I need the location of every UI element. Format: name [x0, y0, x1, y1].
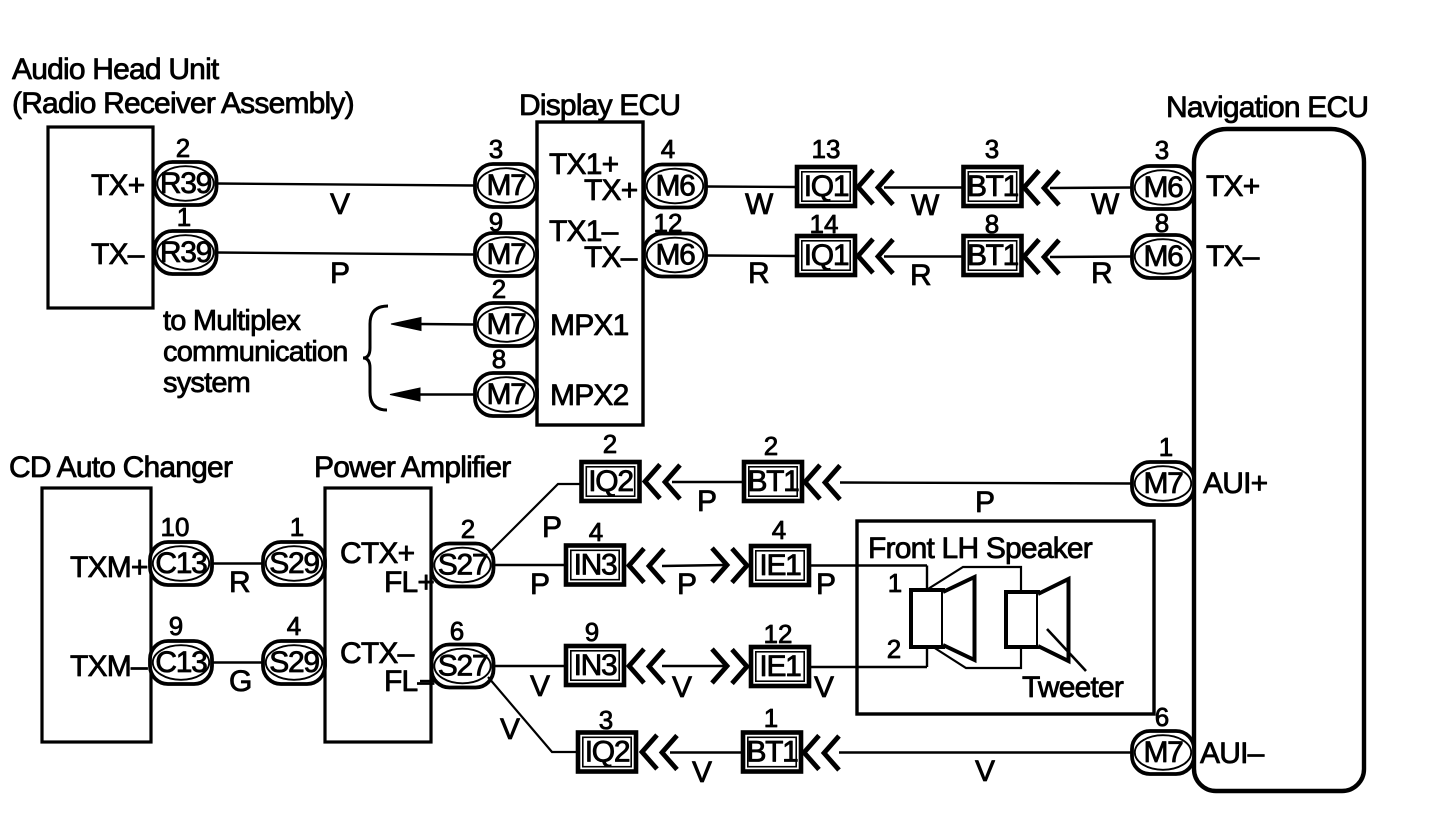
svg-text:BT1: BT1	[746, 736, 798, 769]
svg-text:system: system	[163, 367, 250, 399]
wire P ie1 to speaker	[809, 564, 927, 566]
woofer symbol	[911, 577, 975, 660]
svg-text:Tweeter: Tweeter	[1022, 671, 1124, 704]
connector M7 pin2 MPX1	[475, 303, 537, 346]
svg-text:M7: M7	[486, 378, 526, 411]
Audio Head Unit box	[48, 127, 153, 308]
wire G c13 to s29	[212, 661, 264, 663]
chevrons after BT1 row1	[1024, 171, 1059, 206]
svg-text:1: 1	[177, 202, 191, 232]
wire R c13 to s29	[212, 562, 264, 564]
chevrons after IQ2 bottom	[642, 735, 677, 770]
wire speaker wire2 v	[926, 646, 928, 667]
connector R39 pin1	[155, 231, 217, 274]
junction connector IN3 pin4	[566, 546, 624, 585]
svg-text:IN3: IN3	[574, 649, 617, 682]
wire P bt1 to m7nav	[840, 483, 1132, 484]
wire branch S27 up to IQ2	[489, 484, 582, 553]
svg-text:BT1: BT1	[747, 465, 799, 498]
svg-text:M6: M6	[655, 170, 695, 203]
svg-text:IN3: IN3	[574, 549, 617, 582]
wire V s27 to in3	[494, 665, 567, 667]
wire R iq1 to bt1	[884, 255, 964, 257]
svg-text:M7: M7	[486, 308, 526, 341]
wire P s27 to in3	[494, 564, 567, 566]
CD Auto Changer box	[42, 488, 151, 742]
wire W m6 to iq1	[706, 185, 797, 188]
connector S29 pin1	[263, 542, 325, 585]
svg-text:R: R	[1091, 257, 1112, 290]
junction connector IQ1 pin14	[797, 236, 855, 275]
svg-text:TX+: TX+	[1206, 170, 1260, 203]
svg-text:(Radio Receiver Assembly): (Radio Receiver Assembly)	[12, 87, 354, 120]
svg-text:1: 1	[1159, 432, 1173, 462]
svg-text:IQ2: IQ2	[585, 736, 630, 769]
svg-text:P: P	[697, 485, 716, 518]
brace to multiplex	[363, 306, 388, 410]
svg-text:MPX2: MPX2	[550, 379, 629, 412]
svg-text:P: P	[542, 511, 561, 544]
svg-text:Audio Head Unit: Audio Head Unit	[12, 53, 220, 86]
wire speaker wire2 h	[857, 666, 927, 668]
Power Amplifier box	[325, 488, 431, 742]
svg-text:communication: communication	[163, 336, 348, 368]
svg-text:2: 2	[603, 429, 617, 459]
svg-text:G: G	[229, 665, 252, 698]
svg-text:3: 3	[1155, 135, 1169, 165]
chevrons after BT1 row2	[1024, 240, 1059, 275]
wire speaker wire1 v	[926, 566, 928, 592]
svg-text:3: 3	[599, 705, 613, 735]
wire W iq1 to bt1	[884, 186, 964, 188]
junction connector IQ1 pin13	[797, 167, 855, 206]
svg-text:M7: M7	[1143, 736, 1183, 769]
svg-text:1: 1	[764, 703, 778, 733]
svg-text:14: 14	[810, 209, 839, 239]
svg-text:9: 9	[169, 611, 183, 641]
svg-text:12: 12	[764, 619, 793, 649]
wire W bt1 to m6nav	[1050, 186, 1132, 189]
junction connector BT1 pin3	[964, 167, 1022, 206]
svg-text:R: R	[229, 566, 250, 599]
svg-text:Front LH Speaker: Front LH Speaker	[868, 532, 1093, 565]
svg-text:M7: M7	[486, 238, 526, 271]
connector M7 pin3	[475, 164, 537, 207]
svg-text:IQ2: IQ2	[588, 465, 633, 498]
svg-text:P: P	[677, 568, 696, 601]
svg-text:IQ1: IQ1	[804, 239, 849, 272]
junction connector BT1 pin1	[743, 733, 801, 772]
wire V audio to display	[217, 184, 476, 186]
chevrons after IN3 top	[629, 549, 664, 584]
svg-text:M7: M7	[1143, 467, 1183, 500]
svg-text:TX–: TX–	[1206, 240, 1260, 273]
svg-text:TX+: TX+	[584, 174, 638, 207]
svg-text:V: V	[672, 671, 692, 704]
svg-text:M6: M6	[1143, 240, 1183, 273]
chevrons after IQ1 row2	[858, 239, 893, 274]
junction connector BT1 pin2	[744, 462, 802, 501]
connector S27 pin6	[432, 645, 494, 688]
svg-text:TX–: TX–	[584, 241, 638, 274]
connector S27 pin2	[432, 544, 494, 587]
svg-text:V: V	[814, 671, 834, 704]
arrow to multiplex 1	[391, 318, 475, 331]
svg-text:V: V	[330, 188, 350, 221]
svg-text:TXM–: TXM–	[70, 650, 148, 683]
svg-text:TX+: TX+	[91, 169, 145, 202]
svg-text:13: 13	[812, 134, 841, 164]
svg-text:4: 4	[772, 515, 786, 545]
svg-text:W: W	[911, 189, 940, 222]
wire branch S27 down to IQ2	[488, 677, 578, 752]
svg-text:3: 3	[985, 134, 999, 164]
svg-text:R39: R39	[160, 167, 212, 200]
connector M6 nav pin3	[1132, 166, 1194, 209]
svg-text:9: 9	[585, 617, 599, 647]
connector M7 pin9	[475, 233, 537, 276]
svg-text:IQ1: IQ1	[804, 170, 849, 203]
svg-text:W: W	[745, 188, 774, 221]
svg-text:4: 4	[287, 611, 301, 641]
tweeter symbol	[1006, 579, 1069, 661]
svg-text:S27: S27	[438, 549, 488, 582]
chevrons after IQ2 top	[645, 465, 680, 500]
svg-text:P: P	[975, 486, 994, 519]
svg-text:TX–: TX–	[91, 238, 145, 271]
svg-text:8: 8	[1155, 208, 1169, 238]
chevrons after BT1 aui+	[805, 465, 840, 500]
svg-text:FL+: FL+	[384, 566, 434, 599]
svg-text:1: 1	[290, 512, 304, 542]
wire V in3 to ie1	[662, 665, 724, 667]
svg-text:Power Amplifier: Power Amplifier	[314, 451, 511, 484]
svg-text:8: 8	[492, 344, 506, 374]
svg-text:6: 6	[1155, 702, 1169, 732]
junction connector IE1 pin4	[751, 546, 809, 585]
svg-text:IE1: IE1	[759, 650, 801, 683]
svg-text:TXM+: TXM+	[70, 551, 148, 584]
chevrons before IE1 top	[712, 548, 747, 583]
connector M7 nav pin1 AUI+	[1132, 462, 1194, 505]
wire P audio to display	[217, 253, 476, 255]
svg-text:W: W	[1091, 188, 1120, 221]
svg-text:MPX1: MPX1	[550, 309, 629, 342]
svg-text:V: V	[500, 713, 520, 746]
svg-text:3: 3	[489, 134, 503, 164]
Navigation ECU box	[1194, 129, 1364, 791]
wire P in3 to ie1	[662, 565, 724, 566]
svg-text:M6: M6	[1143, 171, 1183, 204]
chevrons after IQ1 row1	[858, 170, 893, 205]
svg-text:R: R	[748, 257, 769, 290]
tweeter pointer line	[1047, 629, 1086, 671]
svg-text:V: V	[530, 670, 550, 703]
svg-text:Navigation ECU: Navigation ECU	[1166, 91, 1368, 124]
svg-text:AUI–: AUI–	[1200, 737, 1265, 770]
junction connector IQ2 pin3	[578, 733, 636, 772]
junction connector BT1 pin8	[964, 236, 1022, 275]
svg-text:IE1: IE1	[759, 549, 801, 582]
svg-text:C13: C13	[155, 547, 207, 580]
FL- dash to S27	[420, 680, 436, 682]
svg-text:R: R	[910, 259, 931, 292]
wire V ie1 to speaker	[809, 666, 927, 668]
chevrons before IE1 bottom	[712, 649, 747, 684]
svg-text:12: 12	[654, 208, 683, 238]
chevrons after BT1 aui-	[804, 736, 839, 771]
svg-text:P: P	[530, 568, 549, 601]
wire R bt1 to m6nav	[1050, 255, 1132, 258]
svg-text:6: 6	[450, 616, 464, 646]
svg-text:AUI+: AUI+	[1203, 467, 1268, 500]
svg-text:1: 1	[888, 568, 902, 598]
svg-text:2: 2	[764, 431, 778, 461]
junction connector IQ2 pin2	[582, 462, 640, 501]
svg-text:to Multiplex: to Multiplex	[163, 305, 301, 337]
connector C13 pin9	[150, 641, 212, 684]
svg-text:2: 2	[176, 133, 190, 163]
connector R39 pin2	[155, 162, 217, 205]
wire V iq2 to bt1	[670, 751, 743, 753]
svg-text:2: 2	[461, 514, 475, 544]
svg-text:4: 4	[589, 517, 603, 547]
svg-text:10: 10	[161, 512, 190, 542]
connector M6 nav pin8	[1132, 235, 1194, 278]
svg-text:C13: C13	[155, 646, 207, 679]
svg-text:M7: M7	[486, 169, 526, 202]
svg-text:P: P	[816, 568, 835, 601]
svg-text:9: 9	[489, 207, 503, 237]
connector M7 pin8 MPX2	[475, 373, 537, 416]
svg-text:BT1: BT1	[967, 170, 1019, 203]
svg-text:4: 4	[661, 134, 675, 164]
Display ECU box	[537, 122, 643, 425]
svg-text:Display ECU: Display ECU	[519, 89, 680, 122]
svg-text:S29: S29	[269, 547, 319, 580]
svg-text:R39: R39	[160, 236, 212, 269]
svg-text:M6: M6	[655, 239, 695, 272]
svg-text:2: 2	[887, 634, 901, 664]
junction connector IN3 pin9	[566, 646, 624, 685]
wire P iq2 to bt1	[672, 481, 744, 483]
svg-text:BT1: BT1	[967, 239, 1019, 272]
connector M6 pin4	[644, 165, 706, 208]
svg-text:CD Auto Changer: CD Auto Changer	[9, 451, 233, 484]
connector M6 pin12	[644, 234, 706, 277]
chevrons after IN3 bottom	[629, 649, 664, 684]
svg-text:V: V	[975, 755, 995, 788]
connector C13 pin10	[150, 542, 212, 585]
arrow to multiplex 2	[390, 388, 475, 401]
svg-text:S29: S29	[269, 646, 319, 679]
junction connector IE1 pin12	[751, 647, 809, 686]
wire V bt1 to m7nav	[839, 751, 1132, 753]
connector M7 nav pin6 AUI-	[1132, 731, 1194, 774]
wire R m6 to iq1	[706, 254, 797, 257]
speaker enclosure outline	[928, 567, 1021, 668]
Front LH Speaker box	[857, 521, 1154, 714]
svg-text:2: 2	[492, 274, 506, 304]
svg-text:P: P	[330, 257, 349, 290]
svg-text:S27: S27	[438, 650, 488, 683]
wire speaker wire1 h	[857, 564, 927, 566]
svg-text:V: V	[692, 756, 712, 789]
connector S29 pin4	[263, 641, 325, 684]
svg-text:8: 8	[985, 209, 999, 239]
